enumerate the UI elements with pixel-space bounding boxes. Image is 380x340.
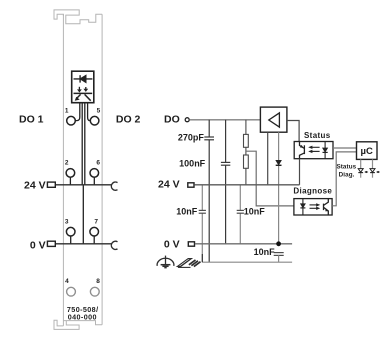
svg-text:24 V: 24 V — [158, 179, 180, 191]
svg-text:Diagnose: Diagnose — [293, 186, 332, 195]
svg-text:6: 6 — [96, 160, 100, 167]
svg-text:10nF: 10nF — [244, 207, 266, 217]
svg-text:24 V: 24 V — [24, 180, 46, 192]
svg-text:DO: DO — [164, 113, 180, 125]
svg-text:8: 8 — [96, 278, 100, 285]
svg-text:10nF: 10nF — [176, 207, 198, 217]
svg-text:270pF: 270pF — [178, 133, 205, 143]
svg-text:4: 4 — [65, 278, 69, 285]
svg-text:2: 2 — [65, 160, 69, 167]
svg-text:0 V: 0 V — [164, 239, 180, 251]
svg-text:1: 1 — [65, 108, 69, 115]
svg-text:0 V: 0 V — [30, 240, 46, 252]
svg-text:Diag.: Diag. — [339, 171, 355, 178]
svg-text:µC: µC — [361, 146, 373, 157]
svg-text:Status: Status — [336, 163, 356, 170]
svg-text:Status: Status — [304, 131, 331, 140]
svg-text:100nF: 100nF — [179, 158, 206, 168]
svg-text:10nF: 10nF — [254, 247, 276, 257]
svg-text:DO 1: DO 1 — [19, 114, 44, 126]
svg-text:DO 2: DO 2 — [116, 114, 141, 126]
svg-text:3: 3 — [65, 219, 69, 226]
svg-text:040-000: 040-000 — [68, 313, 97, 322]
svg-text:5: 5 — [97, 108, 101, 115]
svg-text:7: 7 — [94, 219, 98, 226]
